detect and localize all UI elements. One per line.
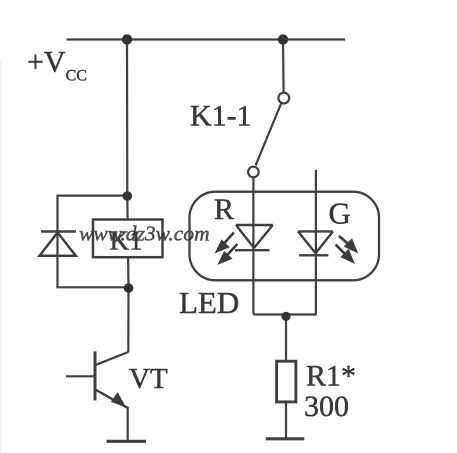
svg-text:R1*: R1* bbox=[306, 360, 356, 393]
svg-text:R: R bbox=[214, 193, 234, 226]
svg-text:G: G bbox=[329, 196, 351, 231]
svg-text:300: 300 bbox=[304, 390, 349, 423]
svg-text:www.dz3w.com: www.dz3w.com bbox=[79, 222, 210, 246]
svg-text:VT: VT bbox=[129, 363, 168, 395]
svg-text:LED: LED bbox=[179, 285, 239, 320]
svg-text:+VCC: +VCC bbox=[27, 46, 87, 85]
svg-text:K1-1: K1-1 bbox=[190, 99, 252, 132]
